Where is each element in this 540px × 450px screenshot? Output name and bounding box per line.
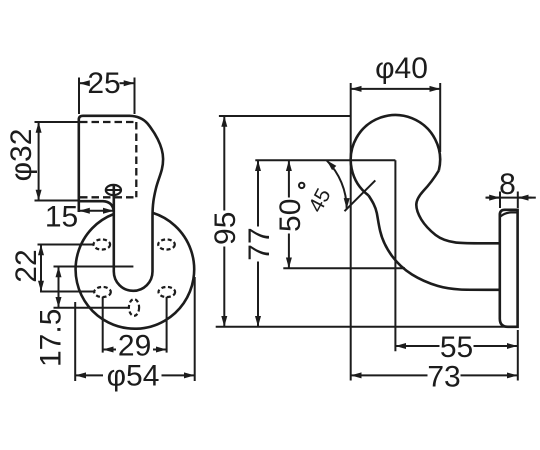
svg-text:17.5: 17.5 [34, 309, 67, 367]
dim 22 line [40, 245, 42, 292]
dim 29 extension left [102, 297, 104, 353]
leader center row [54, 266, 134, 268]
leader top slot row [38, 244, 94, 246]
svg-text:45: 45 [304, 185, 335, 216]
svg-text:φ40: φ40 [375, 52, 428, 85]
extension 50 bottom [283, 267, 405, 269]
svg-text:77: 77 [243, 227, 276, 260]
dim 95 line [223, 116, 225, 211]
dim 29 extension right [166, 297, 168, 353]
front cap outline [79, 116, 163, 217]
front cap bottom step [79, 201, 114, 211]
svg-text:15: 15 [45, 200, 78, 233]
neck inner curve [416, 171, 500, 244]
dim 25 extension left [78, 78, 80, 115]
dim phi32 line [38, 122, 40, 201]
45 degree arc [327, 160, 347, 209]
slot hole top-left [94, 239, 111, 249]
svg-text:73: 73 [427, 360, 460, 393]
front U-bend bottom arc [114, 272, 153, 291]
leader lower slot row [40, 291, 94, 293]
base plate circle [76, 213, 195, 329]
extension ball axis [394, 160, 396, 351]
svg-text:22: 22 [10, 249, 43, 282]
dim phi54 line [75, 374, 103, 376]
svg-text:25: 25 [87, 67, 120, 100]
dim phi32 extension bottom [35, 200, 78, 202]
svg-text:φ54: φ54 [107, 359, 160, 392]
dim 50 line [288, 160, 290, 197]
dim phi40 extension left / 73 extension [350, 83, 352, 381]
wall plate dome line [500, 212, 517, 216]
dim 55 line [395, 345, 439, 347]
dim 8 extension right [517, 192, 519, 209]
dim 15 line [79, 210, 114, 212]
neck outer curve [369, 195, 500, 289]
degree mark [299, 183, 304, 188]
dim 8 extension left [499, 192, 501, 209]
svg-text:φ32: φ32 [5, 129, 38, 182]
dim 77 line [257, 160, 259, 226]
baseline wall surface [216, 326, 518, 328]
hidden cylinder dashed right [135, 122, 137, 197]
svg-text:95: 95 [209, 212, 242, 245]
ball knob arc [351, 115, 440, 195]
slot hole lower-right [159, 287, 176, 297]
hidden cylinder dashed top [80, 121, 136, 123]
front stem right edge [151, 217, 154, 272]
wall plate outline [500, 210, 518, 327]
screw head ellipse [106, 185, 121, 195]
dim 17.5 line [58, 267, 60, 308]
extension ball center [255, 159, 395, 161]
dim 25 line [79, 82, 89, 84]
svg-text:29: 29 [118, 330, 151, 363]
extension ball top [219, 115, 351, 117]
slot hole top-right [158, 239, 175, 249]
45 degree ray [345, 180, 376, 211]
slot hole lower-left [94, 287, 111, 297]
front stem left edge + screw axis [113, 184, 116, 271]
screw cross line [105, 189, 122, 191]
svg-text:8: 8 [499, 168, 516, 201]
svg-text:50: 50 [274, 199, 307, 232]
extension plate right [517, 330, 519, 381]
dim phi32 extension top [35, 121, 78, 123]
svg-text:55: 55 [440, 331, 473, 364]
hidden cylinder dashed bottom [80, 196, 136, 198]
dim 29 line [103, 349, 116, 351]
dim 25 extension right [134, 78, 136, 115]
dim 8 line with outside arrows [486, 197, 536, 199]
dim 73 line [351, 374, 428, 376]
leader bottom slot row [54, 307, 129, 309]
dim phi40 extension right [439, 83, 441, 152]
slot hole bottom-center [129, 299, 139, 316]
dim phi54 extension left [74, 302, 76, 381]
dim phi40 line [351, 88, 441, 90]
dim phi54 extension right [194, 277, 196, 381]
